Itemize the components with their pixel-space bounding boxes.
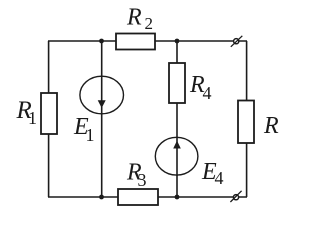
svg-text:R: R bbox=[126, 5, 142, 31]
svg-text:1: 1 bbox=[86, 125, 95, 145]
svg-text:4: 4 bbox=[215, 168, 224, 188]
svg-text:4: 4 bbox=[203, 83, 212, 103]
svg-text:2: 2 bbox=[145, 14, 154, 33]
svg-text:1: 1 bbox=[28, 108, 37, 128]
svg-text:3: 3 bbox=[138, 170, 147, 190]
svg-text:R: R bbox=[263, 113, 279, 139]
